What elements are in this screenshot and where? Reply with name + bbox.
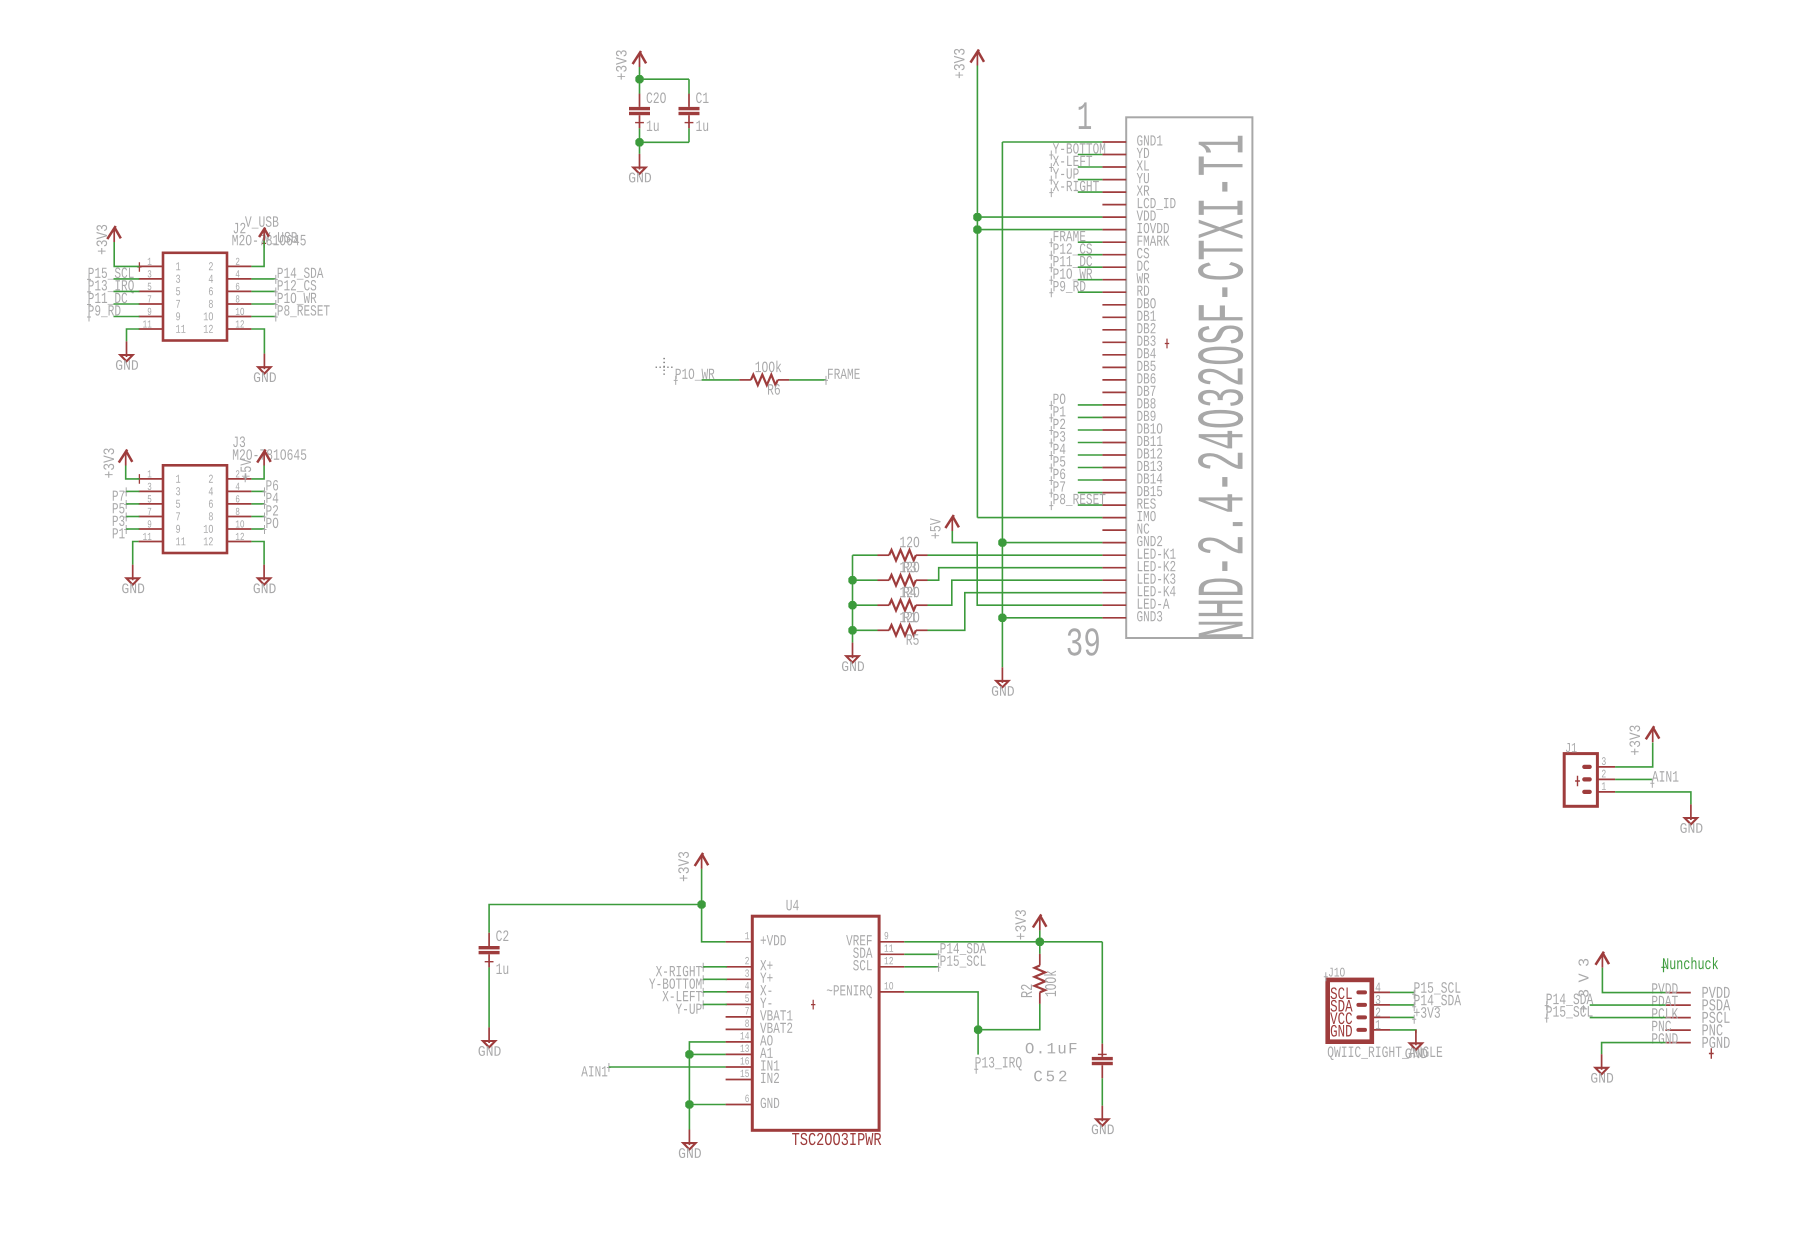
wire (251, 241, 264, 267)
pin stub J2-1 (139, 265, 163, 267)
wire (1602, 968, 1665, 993)
net label P15_SCL (1390, 991, 1414, 993)
pin stub Nunchuck PGND (1665, 1042, 1690, 1044)
wire (1615, 743, 1653, 767)
wire (1002, 542, 1102, 544)
pin stub U4-12 SCL (879, 966, 904, 968)
junction (849, 577, 856, 584)
pin stub LCD DB11 (1102, 442, 1126, 444)
junction (975, 1026, 982, 1033)
wire (251, 542, 264, 565)
wire (904, 992, 978, 1030)
pin stub U4-10 ~PENIRQ (879, 991, 904, 993)
touch controller U4 (752, 916, 879, 1130)
net label P0 (1049, 401, 1053, 410)
supply +5V (LED) (951, 517, 953, 531)
ground (1101, 1106, 1103, 1122)
net label Y-UP (701, 1000, 705, 1009)
net name PNC (1652, 1021, 1671, 1032)
wire (928, 593, 1103, 631)
pin numbers (148, 258, 152, 265)
net label P7 (124, 487, 128, 496)
pin stub LCD VDD (1102, 216, 1126, 218)
pin number 39 (1068, 628, 1099, 655)
supply +5V (J3) (263, 452, 265, 466)
pin stub Nunchuck PVDD (1665, 992, 1690, 994)
pin stub U4-16 IN1 (726, 1066, 753, 1068)
ground (263, 565, 265, 581)
pin stub J3-2 (227, 478, 251, 480)
capacitor C2 (479, 946, 500, 949)
wire (689, 1104, 725, 1106)
net label P10_WR (1049, 276, 1053, 285)
supply +3V3 (J3) (125, 452, 127, 466)
pin stub LCD DB6 (1102, 379, 1126, 381)
pin stub LCD DB10 (1102, 429, 1126, 431)
pin stub LCD LED-K1 (1102, 554, 1126, 556)
pin stub LCD FMARK (1102, 241, 1126, 243)
wire (852, 555, 854, 630)
wire (639, 142, 641, 154)
pin stub LCD DB15 (1102, 492, 1126, 494)
pin numbers (148, 470, 152, 477)
wire (976, 66, 978, 518)
net label P2 (1049, 426, 1053, 435)
pin stub U4-6 GND (726, 1104, 753, 1106)
pin stub LCD LED-A (1102, 604, 1126, 606)
pin stub J2-6 (227, 290, 251, 292)
net label Y-BOTTOM (1049, 151, 1053, 160)
ground (1601, 1054, 1603, 1070)
resistor R3 120 (878, 579, 890, 581)
net name PCLK (1652, 1008, 1678, 1019)
supply +3V3 (LCD) (976, 52, 978, 66)
wire (978, 1004, 1040, 1030)
pin numbers (148, 508, 151, 515)
pin stub LCD GND3 (1102, 617, 1126, 619)
pin stub LCD GND1 (1102, 141, 1126, 143)
pin stub J2-7 (139, 303, 163, 305)
net label P10_WR (674, 376, 678, 385)
net label +3V3 (1390, 1016, 1414, 1018)
connector J1 (1564, 754, 1597, 807)
wire (1390, 1030, 1416, 1033)
pin numbers (148, 270, 152, 277)
pin numbers (148, 495, 152, 502)
junction (974, 226, 981, 233)
pin stub U4-15 IN2 (726, 1079, 753, 1081)
pin numbers (148, 283, 152, 290)
junction (849, 627, 856, 634)
wire (251, 466, 264, 479)
ground (852, 643, 854, 659)
pin stub LCD DB5 (1102, 366, 1126, 368)
net name PGND (1652, 1033, 1677, 1044)
wire (1002, 141, 1102, 143)
wire (853, 579, 878, 581)
net label P11_DC (1049, 263, 1053, 272)
net label P3 (1049, 439, 1053, 448)
net label P6 (1049, 476, 1053, 485)
pin stub J3-7 (139, 516, 163, 518)
origin cross Nunchuck (1709, 1048, 1714, 1059)
pin stub U4-8 VBAT2 (726, 1028, 753, 1030)
wire (928, 580, 1103, 605)
wire (1590, 1004, 1666, 1006)
net label P14_SDA (251, 278, 275, 280)
pin stub J3-3 (139, 490, 163, 492)
net label P9_RD (1049, 288, 1053, 297)
pin J10-4 SCL (1331, 987, 1352, 999)
pin stub U4-14 A0 (726, 1041, 753, 1043)
ground (263, 354, 265, 370)
connector J10 QWIIC_RIGHT_ANGLE (1328, 980, 1372, 1042)
net name PDAT (1652, 996, 1678, 1006)
net name PVDD (1652, 983, 1677, 993)
connector J2 (163, 253, 227, 341)
wire (853, 629, 878, 631)
pin stub Nunchuck PSCL (1665, 1017, 1690, 1019)
net label P15_SCL (1547, 1006, 1593, 1018)
net label X-RIGHT (1049, 188, 1053, 197)
pin stub J2-5 (139, 290, 163, 292)
pin stub U4-1 +VDD (726, 941, 753, 943)
supply +3V3 (J2) (113, 228, 115, 242)
net label FRAME (824, 376, 828, 385)
pin stub LCD RD (1102, 291, 1126, 293)
value TSC2003IPWR (792, 1133, 881, 1145)
net label P8_RESET (1049, 501, 1053, 510)
wire (114, 242, 139, 266)
net label P7 (1049, 489, 1053, 498)
ground (1001, 667, 1003, 683)
resistor R1 120 (878, 629, 890, 631)
pin stub LCD CS (1102, 254, 1126, 256)
net label P0 (251, 528, 264, 530)
net label P14_SDA (1547, 994, 1594, 1006)
connector J3 (163, 465, 227, 553)
pin stub J2-2 (227, 265, 251, 267)
net label P3 (124, 513, 128, 522)
pin stub J2-3 (139, 278, 163, 280)
ground (488, 1027, 490, 1043)
supply +3V3 (R2) (1039, 916, 1041, 930)
net label Y-UP (1049, 176, 1053, 185)
wire (977, 229, 1102, 231)
pin numbers (148, 308, 152, 315)
net label P5 (1049, 464, 1053, 473)
pin stub J2-10 (227, 316, 251, 318)
pin numbers (148, 520, 152, 527)
wire (853, 554, 878, 556)
junction (849, 602, 856, 609)
wire (702, 379, 740, 381)
wire (689, 1053, 725, 1055)
LCD module U? NHD-2.4-240320SF-CTXI-T1 (1126, 117, 1252, 638)
net label X-LEFT (1049, 163, 1053, 172)
pin stub LCD XR (1102, 191, 1126, 193)
pin stub LCD NC (1102, 529, 1126, 531)
pin stub LCD RES (1102, 504, 1126, 506)
capacitor C20 (629, 107, 650, 110)
wire (639, 79, 641, 94)
pin stub U4-5 Y- (726, 1003, 753, 1005)
pin stub U4-9 VREF (879, 941, 904, 943)
pin J10-1 GND (1331, 1025, 1352, 1037)
ground (132, 565, 134, 581)
net label X-RIGHT (701, 963, 705, 972)
junction (1036, 938, 1043, 945)
wire (1101, 942, 1103, 1044)
pin stub LCD LCD_ID (1102, 204, 1126, 206)
pin stub J3-4 (227, 490, 251, 492)
pin stub U4-2 X+ (726, 966, 753, 968)
wire (640, 78, 690, 80)
pin stub LCD DB14 (1102, 479, 1126, 481)
pin numbers (143, 533, 151, 540)
pin stub LCD DB2 (1102, 329, 1126, 331)
pin stub LCD IOVDD (1102, 229, 1126, 231)
pin stub LCD YD (1102, 154, 1126, 156)
wire (702, 905, 726, 942)
pin stub LCD DB7 (1102, 391, 1126, 393)
junction (686, 1101, 693, 1108)
net label P11_DC (87, 300, 91, 309)
resistor R4 120 (878, 604, 890, 606)
net label P4 (251, 503, 264, 505)
pin J10-3 SDA (1331, 1000, 1353, 1012)
net label P13_IRQ (975, 1057, 1021, 1071)
net label AIN1 (1615, 778, 1652, 780)
supply +3V3 (Nunchuck) (1601, 954, 1603, 968)
junction (698, 901, 705, 908)
pin stub J2-4 (227, 278, 251, 280)
net label P13_IRQ (87, 288, 91, 297)
wire (126, 466, 140, 479)
pin numbers (148, 295, 151, 302)
wire (1039, 930, 1041, 941)
pin stub J3-9 (139, 528, 163, 530)
pin stub LCD IM0 (1102, 517, 1126, 519)
pin stub J3-11 (139, 541, 163, 543)
pin stub LCD LED-K2 (1102, 567, 1126, 569)
wire (928, 568, 1103, 581)
pin stub U4-7 VBAT1 (726, 1016, 753, 1018)
wire (977, 216, 1102, 218)
supply V_USB (J2) (263, 230, 265, 244)
wire (489, 905, 701, 933)
wire (1002, 617, 1102, 619)
wire (1039, 942, 1041, 954)
pin stub Nunchuck PSDA (1665, 1004, 1690, 1006)
wire (689, 1042, 725, 1105)
pin number 1 (1079, 102, 1091, 129)
pin stub LCD DB4 (1102, 354, 1126, 356)
pin numbers (148, 483, 152, 490)
resistor R2 100k (1039, 954, 1041, 966)
net label P12_CS (251, 290, 275, 292)
junction (636, 76, 643, 83)
wire (928, 554, 1103, 556)
ground (639, 154, 641, 170)
pin stub J2-12 (227, 328, 251, 330)
sheet origin marker (656, 358, 675, 377)
pin stub LCD DB12 (1102, 454, 1126, 456)
wire (853, 604, 878, 606)
net label P12_CS (1049, 251, 1053, 260)
ground (688, 1130, 690, 1146)
net label P9_RD (87, 313, 91, 322)
pin J1-3 (1582, 765, 1592, 769)
pin stub LCD DB1 (1102, 316, 1126, 318)
ground (126, 341, 128, 357)
pin stub LCD XL (1102, 166, 1126, 168)
net label P5 (124, 500, 128, 509)
pin stub J3-1 (139, 478, 163, 480)
origin cross U4 (811, 1000, 815, 1010)
pin stub U4-13 A1 (726, 1053, 753, 1055)
wire (609, 1066, 726, 1068)
pin J1-2 (1582, 777, 1592, 781)
pin stub LCD DB0 (1102, 304, 1126, 306)
pin stub LCD DB3 (1102, 341, 1126, 343)
pin stub J2-8 (227, 303, 251, 305)
wire (1590, 1017, 1666, 1019)
ground (1415, 1030, 1417, 1046)
resistor R2 120 (878, 554, 890, 556)
pin stub LCD DB8 (1102, 404, 1126, 406)
capacitor C52 0.1uF (1092, 1057, 1113, 1060)
wire (1602, 1043, 1666, 1055)
junction (999, 539, 1006, 546)
supply +3V3 (U4) (701, 855, 703, 869)
supply +3V3 (J1) (1652, 728, 1654, 742)
net label P15_SCL (87, 275, 91, 284)
wire (789, 379, 826, 381)
wire (952, 531, 1102, 605)
resistor R6 (739, 379, 751, 381)
wire (904, 941, 1102, 943)
junction (974, 214, 981, 221)
net label P14_SDA (1390, 1004, 1414, 1006)
junction (686, 1051, 693, 1058)
net label P8_RESET (251, 316, 275, 318)
wire (1101, 1078, 1103, 1105)
wire (977, 1030, 979, 1055)
pin numbers (143, 320, 151, 327)
pin stub LCD DC (1102, 266, 1126, 268)
net label X-LEFT (701, 988, 705, 997)
wire (488, 967, 490, 1027)
wire (251, 329, 264, 354)
part name NHD-2.4-240320SF-CTXI-T1 (1198, 136, 1243, 638)
wire (688, 128, 690, 142)
net label P1 (1049, 414, 1053, 423)
net label P10_WR (251, 303, 275, 305)
junction (636, 139, 643, 146)
net label FRAME (1049, 238, 1053, 247)
pin J1-1 (1582, 790, 1592, 794)
pin stub LCD YU (1102, 179, 1126, 181)
pin stub LCD LED-K4 (1102, 592, 1126, 594)
net label AIN1 (607, 1063, 611, 1072)
pin stub J3-5 (139, 503, 163, 505)
pin stub J3-6 (227, 503, 251, 505)
wire (688, 1105, 690, 1130)
junction (999, 614, 1006, 621)
origin cross LCD (1165, 339, 1169, 349)
pin stub Nunchuck PNC (1665, 1029, 1690, 1031)
pin stub J2-9 (139, 316, 163, 318)
pin stub LCD WR (1102, 279, 1126, 281)
pin stub LCD GND2 (1102, 542, 1126, 544)
pin stub LCD DB13 (1102, 467, 1126, 469)
supply +3V3 (caps) (639, 53, 641, 67)
net label Y-BOTTOM (701, 975, 705, 984)
wire (639, 67, 641, 79)
pin stub J3-12 (227, 541, 251, 543)
capacitor C1 (679, 107, 700, 110)
pin stub J3-10 (227, 528, 251, 530)
wire (127, 329, 140, 341)
wire (701, 869, 703, 905)
net label P4 (1049, 451, 1053, 460)
pin J10-2 VCC (1330, 1012, 1352, 1024)
net label P6 (251, 490, 264, 492)
ground (1690, 804, 1692, 820)
pin stub U4-11 SDA (879, 953, 904, 955)
pin stub J2-11 (139, 328, 163, 330)
net label P2 (251, 516, 264, 518)
wire (852, 630, 854, 642)
pin stub LCD LED-K3 (1102, 579, 1126, 581)
pin stub J3-8 (227, 516, 251, 518)
wire (639, 128, 641, 142)
pin stub U4-3 Y+ (726, 978, 753, 980)
pin stub U4-4 X- (726, 991, 753, 993)
net label P15_SCL (904, 966, 938, 968)
wire (1615, 792, 1691, 805)
pin stub LCD DB9 (1102, 416, 1126, 418)
device Nunchuck (1663, 957, 1718, 969)
net label P1 (124, 525, 128, 534)
wire (133, 542, 139, 565)
net label P14_SDA (904, 953, 938, 955)
